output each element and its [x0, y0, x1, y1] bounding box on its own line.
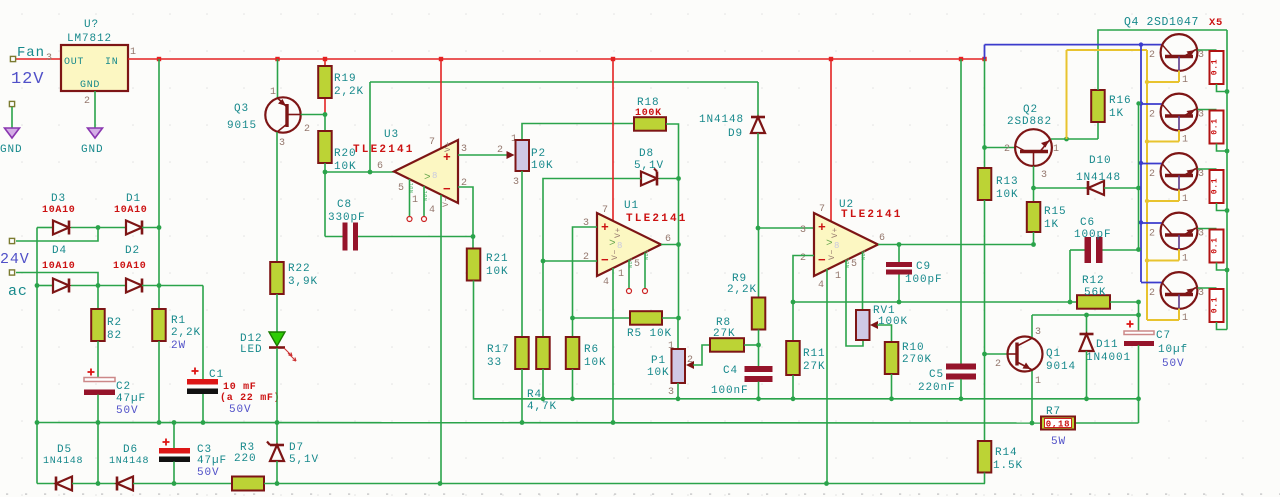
- wire U2 pin7 supply (red): [830, 59, 832, 221]
- wire D6 to C3: [133, 483, 232, 485]
- wire C1 branch: [202, 286, 204, 380]
- ground symbol left: [5, 128, 20, 138]
- resistor R20 10K: [318, 131, 332, 163]
- svg-text:−: −: [443, 182, 452, 197]
- svg-text:10K: 10K: [584, 357, 607, 369]
- diode D5 1N4148: [56, 477, 72, 491]
- svg-text:9014: 9014: [1046, 361, 1076, 373]
- svg-text:1: 1: [1182, 194, 1189, 205]
- junction left rail corner: [35, 420, 40, 425]
- svg-text:1: 1: [1182, 313, 1189, 324]
- wire R1 to rail: [158, 341, 160, 423]
- svg-text:C2: C2: [116, 381, 131, 393]
- wire U1 pin5 null stub: [644, 253, 646, 289]
- wire ac terminal2 to bridge mid bottom: [16, 273, 98, 286]
- wire node to R4: [542, 261, 544, 337]
- wire yellow Q4-3 collector: [1178, 190, 1180, 202]
- svg-text:10A10: 10A10: [42, 261, 76, 272]
- svg-text:D6: D6: [123, 444, 138, 456]
- svg-text:R17: R17: [487, 344, 510, 356]
- svg-text:1N4148: 1N4148: [1076, 172, 1121, 184]
- svg-text:2: 2: [995, 359, 1002, 370]
- wire Q1 collector net y=315: [1032, 314, 1139, 316]
- svg-text:2,2K: 2,2K: [727, 284, 757, 296]
- capacitor C5 220nF: [946, 364, 976, 370]
- wire C7 to rail: [1138, 345, 1140, 423]
- wire Fan to U? OUT (red): [16, 58, 61, 60]
- resistor R19 2,2K: [318, 66, 332, 98]
- bottom grid dash row (decorative): [6, 493, 1280, 494]
- svg-text:3: 3: [461, 144, 468, 155]
- svg-text:TLE2141: TLE2141: [353, 144, 415, 156]
- svg-text:3,9K: 3,9K: [288, 276, 318, 288]
- svg-text:Q3: Q3: [234, 103, 249, 115]
- svg-text:100K: 100K: [878, 316, 908, 328]
- wire rail end down to Q2 base (green): [984, 59, 986, 148]
- diode D4 10A10: [53, 279, 69, 293]
- wire R8 right to node: [744, 344, 759, 346]
- svg-text:10 mF: 10 mF: [223, 382, 257, 393]
- svg-text:R13: R13: [996, 176, 1019, 188]
- wire R4 to feedback rail: [542, 369, 544, 399]
- svg-text:2: 2: [1149, 229, 1156, 240]
- wire blue base Q4-2: [1141, 103, 1162, 105]
- op-amp U3 TLE2141 (mirrored): [394, 140, 458, 203]
- wire bottom rail right part: [440, 483, 985, 485]
- connector 24V ac terminal 1: [9, 238, 14, 243]
- wire R5 right to P1 pin1: [662, 317, 679, 319]
- junction D3 cathode: [96, 225, 101, 230]
- wire C6 left down to U2.2 net: [1069, 250, 1071, 302]
- svg-text:10A10: 10A10: [113, 261, 147, 272]
- svg-text:2: 2: [1149, 110, 1156, 121]
- svg-text:Q4 2SD1047: Q4 2SD1047: [1124, 16, 1199, 29]
- wire yellow Q4-5 collector: [1178, 309, 1180, 321]
- capacitor C2 47uF: [88, 371, 95, 373]
- wire junction to R20: [324, 115, 326, 132]
- svg-text:27K: 27K: [713, 328, 736, 340]
- svg-text:D3: D3: [51, 193, 66, 205]
- wire U1 pin6 out: [661, 244, 679, 246]
- svg-text:3: 3: [800, 225, 807, 236]
- svg-text:1K: 1K: [1109, 108, 1124, 120]
- svg-text:8: 8: [617, 241, 623, 251]
- svg-text:3: 3: [1035, 327, 1042, 338]
- svg-text:C7: C7: [1156, 330, 1171, 342]
- wire bottom rail y=483: [37, 483, 56, 485]
- wire D10 node up to base bus: [1138, 104, 1140, 189]
- svg-text:ac: ac: [8, 283, 28, 300]
- transistor Q2 2SD882: [1015, 129, 1052, 166]
- svg-text:0.1: 0.1: [1211, 178, 1220, 195]
- wire C9 to U2.2 net: [898, 275, 900, 303]
- wire R12 right to x1139: [1110, 301, 1139, 303]
- svg-text:2: 2: [1149, 288, 1156, 299]
- wire D7 to bottom rail: [276, 461, 278, 484]
- capacitor C3 47uF: [163, 441, 170, 443]
- wire blue base Q4-4: [1141, 222, 1162, 224]
- transistor Q4-1 2SD1047: [1161, 34, 1198, 71]
- junction D5/D6: [72, 483, 117, 485]
- resistor R11 27K: [792, 302, 794, 341]
- svg-text:6: 6: [665, 234, 672, 245]
- svg-text:1N4148: 1N4148: [699, 114, 744, 126]
- svg-text:2,2K: 2,2K: [334, 86, 364, 98]
- wire R11 to rail: [792, 375, 794, 399]
- svg-text:3: 3: [1198, 229, 1205, 240]
- svg-text:R7: R7: [1046, 406, 1061, 418]
- wire U3 pin3 to P2 wiper: [458, 154, 507, 156]
- wire P1 pin3 to rail: [677, 383, 679, 399]
- resistor R4 4,7K: [536, 337, 550, 369]
- wire R9 to node: [758, 330, 760, 346]
- svg-text:2SD882: 2SD882: [1007, 116, 1052, 128]
- wire R10 to rail: [891, 374, 893, 399]
- resistor 0.1 #1: [1210, 51, 1224, 84]
- junction U1.3/R5/R6: [570, 316, 575, 321]
- wire C2 to rail: [97, 395, 99, 423]
- svg-text:10K: 10K: [531, 160, 554, 172]
- wire U2 pin5 null to RV1 top: [862, 252, 864, 310]
- wire R16 top to emitter bus: [1098, 30, 1227, 90]
- wire D7 branch: [276, 423, 278, 446]
- svg-text:D10: D10: [1089, 155, 1112, 167]
- svg-text:5W: 5W: [1051, 436, 1066, 448]
- svg-text:3: 3: [1041, 170, 1048, 181]
- wire D4 anode: [37, 285, 53, 287]
- transistor Q4-3 2SD1047: [1161, 153, 1198, 190]
- resistor 0.1 #3: [1210, 170, 1224, 203]
- wire U3 pin1 null stub: [423, 186, 425, 217]
- svg-text:V+: V+: [831, 227, 840, 238]
- wire U1 pin4 to mid rail: [612, 268, 614, 423]
- connector single pin to GND: [9, 101, 14, 106]
- svg-text:D9: D9: [728, 128, 743, 140]
- wire C3 branch: [173, 423, 175, 449]
- wire R16 bottom stub: [1097, 122, 1099, 139]
- svg-text:1K: 1K: [1044, 219, 1059, 231]
- svg-text:4: 4: [429, 205, 436, 216]
- svg-text:330pF: 330pF: [328, 212, 366, 224]
- wire Q4-5 emitter to resistor: [1198, 287, 1217, 289]
- svg-text:3: 3: [1198, 169, 1205, 180]
- wire D11 to rail: [1086, 351, 1088, 399]
- svg-text:TLE2141: TLE2141: [841, 209, 903, 221]
- resistor R1 2,2K 2W: [152, 309, 166, 341]
- wire regulator GND pin: [94, 91, 96, 128]
- transistor Q1 9014: [1008, 337, 1043, 372]
- resistor R9 2,2K: [758, 228, 760, 298]
- wire x1139 corner to R7: [1075, 422, 1139, 424]
- svg-text:82: 82: [107, 330, 122, 342]
- svg-text:2: 2: [497, 145, 504, 156]
- svg-text:1: 1: [618, 269, 625, 280]
- svg-text:>: >: [826, 238, 834, 250]
- junction R19/R20/Q3: [323, 112, 328, 117]
- svg-text:3: 3: [279, 138, 286, 149]
- svg-text:OUT: OUT: [64, 57, 84, 68]
- resistor R10 270K: [885, 342, 899, 374]
- svg-text:1: 1: [835, 271, 842, 282]
- svg-text:1.5K: 1.5K: [993, 460, 1023, 472]
- svg-text:0.1: 0.1: [1211, 297, 1220, 314]
- wire yellow Q4-2 collector: [1178, 130, 1180, 142]
- svg-text:220nF: 220nF: [918, 382, 956, 394]
- wire D10 anode to x1139: [1104, 187, 1139, 189]
- potentiometer P1 10K: [677, 318, 679, 349]
- svg-text:3: 3: [1198, 288, 1205, 299]
- svg-text:V+: V+: [614, 227, 623, 238]
- capacitor C1 10mF: [192, 370, 199, 372]
- svg-text:1: 1: [1182, 254, 1189, 265]
- wire U1 pin3 elbow to R5/R6: [573, 227, 598, 318]
- svg-text:5: 5: [634, 259, 641, 270]
- capacitor C6 100pF: [1070, 249, 1085, 251]
- svg-text:2: 2: [304, 124, 311, 135]
- op-amp U1 TLE2141: [597, 213, 661, 276]
- svg-text:U3: U3: [384, 129, 399, 141]
- wire node to U2 pin3: [758, 227, 814, 229]
- svg-text:50V: 50V: [197, 467, 220, 479]
- svg-text:1: 1: [412, 195, 419, 206]
- wire U1 pin1 null stub: [628, 260, 630, 289]
- zener D8 5,1V: [659, 178, 679, 180]
- svg-text:1: 1: [1035, 376, 1042, 387]
- zener D7 5,1V: [270, 445, 284, 461]
- wire connector to ground: [11, 107, 13, 128]
- wire Q4-3 emitter to resistor: [1198, 168, 1217, 170]
- svg-text:100K: 100K: [635, 108, 662, 119]
- wire 0.1 #1 to emitter bus: [1217, 84, 1228, 92]
- transistor Q4-4 2SD1047: [1161, 213, 1198, 250]
- wire U3 pin2 elbow: [458, 187, 473, 237]
- svg-text:LED: LED: [240, 344, 263, 356]
- svg-text:0.1: 0.1: [1211, 59, 1220, 76]
- svg-text:V+: V+: [444, 141, 453, 152]
- svg-text:R15: R15: [1044, 206, 1067, 218]
- svg-text:D11: D11: [1096, 339, 1119, 351]
- trimmer RV1 100K: [856, 310, 870, 340]
- resistor R18 100K: [634, 117, 666, 131]
- svg-text:7: 7: [429, 137, 436, 148]
- svg-text:8: 8: [834, 241, 840, 251]
- wire ac terminal1 to bridge mid top: [16, 228, 98, 242]
- svg-text:D1: D1: [126, 193, 141, 205]
- svg-text:R16: R16: [1109, 95, 1132, 107]
- svg-text:R5 10K: R5 10K: [627, 328, 672, 340]
- svg-text:R6: R6: [584, 344, 599, 356]
- svg-text:2: 2: [1004, 144, 1011, 155]
- wire U3 pin5 null stub: [409, 179, 411, 217]
- resistor R7 0,18 5W: [1041, 417, 1075, 430]
- svg-text:X5: X5: [1209, 17, 1223, 29]
- regulator U1 LM7812 body: [61, 45, 128, 91]
- svg-text:IN: IN: [105, 57, 118, 68]
- svg-text:R22: R22: [288, 263, 311, 275]
- svg-text:D5: D5: [57, 444, 72, 456]
- resistor R17 33: [515, 337, 529, 369]
- svg-text:2W: 2W: [171, 340, 186, 352]
- wire C1 to rail: [202, 394, 204, 423]
- svg-text:C4: C4: [723, 365, 738, 377]
- wire Q2 collector to D10 node: [1033, 166, 1035, 188]
- wire Q1 pin1 to mid rail: [1031, 371, 1033, 423]
- wire Q3 base to R19/R20 junction: [301, 114, 325, 116]
- wire bridge left vertical: [36, 228, 38, 286]
- wire Q1 base: [985, 353, 1008, 355]
- svg-text:3: 3: [46, 53, 53, 64]
- wire C6 right to x1139: [1103, 249, 1139, 251]
- svg-text:9015: 9015: [227, 120, 257, 132]
- svg-text:100pF: 100pF: [1074, 229, 1112, 241]
- resistor R2 82: [91, 309, 105, 341]
- wire red rail branch to C5: [960, 59, 962, 364]
- wire R6 to feedback rail: [572, 369, 574, 399]
- wire yellow Q4-1 collector: [1178, 71, 1180, 83]
- svg-text:P1: P1: [651, 355, 666, 367]
- wire R15 to U2 output: [1033, 232, 1035, 245]
- svg-text:GND: GND: [0, 144, 23, 156]
- svg-text:−: −: [601, 253, 610, 268]
- svg-text:−: −: [818, 253, 827, 268]
- svg-text:+: +: [818, 220, 827, 235]
- wire U1 pin2 to node: [543, 260, 597, 262]
- svg-text:R19: R19: [334, 73, 357, 85]
- diode D10 1N4148: [1034, 187, 1089, 189]
- resistor R8 27K: [710, 338, 744, 352]
- svg-text:P2: P2: [531, 148, 546, 160]
- wire U2 pin4 to bottom rail: [826, 269, 828, 484]
- wire U1 pin7 supply (red): [612, 59, 614, 221]
- svg-text:1N4148: 1N4148: [43, 456, 83, 467]
- wire R20 bottom to U3 pin6: [324, 163, 326, 172]
- svg-text:2: 2: [1149, 50, 1156, 61]
- wire P2 pin1 to R18: [522, 124, 634, 141]
- svg-text:0,18: 0,18: [1046, 420, 1070, 430]
- svg-text:5: 5: [398, 183, 405, 194]
- wire D8 anode elbow to U1 pin2 node: [543, 179, 641, 262]
- svg-text:33: 33: [487, 357, 502, 369]
- wire Q4-1 emitter to resistor: [1198, 49, 1217, 51]
- svg-text:100nF: 100nF: [711, 385, 749, 397]
- wire left edge between rails: [36, 423, 38, 484]
- resistor 0.1 #2: [1210, 111, 1224, 144]
- resistor R22 3,9K: [270, 262, 284, 294]
- junction D4 cathode: [96, 283, 101, 288]
- wire x159 vertical from rail: [158, 59, 160, 228]
- connector Fan pin: [10, 56, 15, 61]
- diode D2 10A10: [126, 279, 142, 293]
- wire 0.1 #3 to emitter bus: [1217, 203, 1228, 211]
- wire D9 to U2 pin3 node: [757, 133, 759, 228]
- svg-text:6: 6: [879, 233, 886, 244]
- wire U2 pin2 elbow: [793, 256, 814, 303]
- wire main +V rail (red): [128, 58, 985, 60]
- wire R13 to Q1 base node: [984, 200, 986, 354]
- svg-text:GND: GND: [81, 144, 104, 156]
- svg-text:C6: C6: [1080, 217, 1095, 229]
- svg-text:220: 220: [234, 453, 257, 465]
- svg-text:C9: C9: [916, 261, 931, 273]
- svg-text:C8: C8: [337, 199, 352, 211]
- wire C5 to rail: [960, 379, 962, 399]
- diode D9 1N4148: [757, 82, 759, 117]
- transistor Q4-5 2SD1047: [1161, 272, 1198, 309]
- resistor R3 220: [232, 477, 264, 491]
- wire C3 to bottom rail: [173, 462, 175, 484]
- svg-text:10K: 10K: [486, 266, 509, 278]
- RV1 wiper to R10: [870, 321, 878, 329]
- wire x37 down to rail: [36, 286, 38, 423]
- capacitor C8 330pF: [324, 172, 326, 237]
- svg-text:1: 1: [1053, 144, 1060, 155]
- svg-text:50V: 50V: [229, 404, 252, 416]
- wire mid rail y=422: [37, 422, 1041, 425]
- wire U3 pin7 supply (red): [440, 59, 442, 148]
- svg-text:D8: D8: [639, 148, 654, 160]
- svg-text:5,1V: 5,1V: [289, 454, 319, 466]
- svg-text:R11: R11: [803, 348, 826, 360]
- wire Q3 pin3 to R22: [276, 132, 278, 262]
- svg-text:1N4148: 1N4148: [109, 456, 149, 467]
- capacitor C7 10uF: [1127, 323, 1134, 325]
- svg-text:GND: GND: [80, 80, 100, 91]
- svg-text:Fan: Fan: [17, 45, 45, 61]
- ground symbol under regulator: [88, 128, 103, 138]
- diode D1 10A10: [126, 221, 142, 235]
- resistor 0.1 #5: [1210, 289, 1224, 322]
- transistor Q4-2 2SD1047: [1161, 94, 1198, 131]
- wire x98 between rails: [97, 423, 99, 484]
- svg-text:3: 3: [668, 387, 675, 398]
- svg-text:3: 3: [513, 177, 520, 188]
- svg-text:50V: 50V: [1162, 358, 1185, 370]
- svg-text:1: 1: [270, 87, 277, 98]
- svg-text:2: 2: [1149, 169, 1156, 180]
- wire emitter bus vertical: [1226, 30, 1228, 330]
- svg-text:24V: 24V: [0, 251, 30, 268]
- svg-text:4: 4: [818, 280, 825, 291]
- wire U2 pin6 output: [878, 244, 1034, 246]
- svg-text:0.1: 0.1: [1211, 237, 1220, 254]
- diode D3 10A10: [53, 221, 69, 235]
- svg-text:10K: 10K: [996, 189, 1019, 201]
- svg-text:U1: U1: [624, 200, 639, 212]
- svg-text:R14: R14: [995, 447, 1018, 459]
- wire R19 stubs (red): [324, 59, 326, 66]
- svg-text:D4: D4: [52, 245, 67, 257]
- svg-text:56K: 56K: [1084, 287, 1107, 299]
- wire blue base Q4-5: [1141, 282, 1162, 284]
- wire U2 pin1 null to RV1 bottom: [846, 260, 863, 346]
- wire R3 to D7: [264, 483, 440, 485]
- svg-text:27K: 27K: [803, 361, 826, 373]
- svg-text:3: 3: [1198, 110, 1205, 121]
- svg-text:R1: R1: [171, 315, 186, 327]
- wire R1 branch: [158, 286, 160, 310]
- wire R17 to mid rail: [521, 369, 523, 423]
- svg-text:C1: C1: [209, 369, 224, 381]
- svg-text:10K: 10K: [647, 367, 670, 379]
- resistor R5 10K: [630, 311, 662, 325]
- connector ac terminal 2: [9, 270, 14, 275]
- svg-text:>: >: [609, 238, 617, 250]
- svg-text:1: 1: [1182, 75, 1189, 86]
- wire Q2 base: [985, 147, 1016, 149]
- wire U3 output branch up to y82: [369, 82, 371, 172]
- svg-text:LM7812: LM7812: [67, 33, 112, 45]
- wire Q2 emitter to R16: [1051, 138, 1098, 140]
